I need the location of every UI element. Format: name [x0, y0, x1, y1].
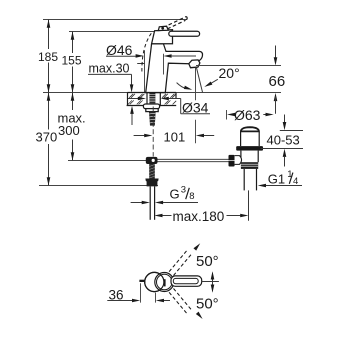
G3/8 connector nut — [145, 179, 158, 187]
washer under deck — [143, 104, 159, 109]
Ø46 right arrow — [163, 54, 171, 58]
svg-text:Ø34: Ø34 — [182, 100, 209, 116]
pop-up rod horizontal — [157, 158, 228, 160]
svg-text:G1: G1 — [268, 171, 285, 186]
flange ring — [236, 146, 263, 151]
dimension 155 — [72, 32, 74, 54]
dimension Ø34 (hole) — [128, 98, 138, 100]
small tick near extension — [137, 63, 144, 65]
G3/8 dimension arrows — [131, 202, 143, 204]
Ø46 extension line right — [163, 54, 165, 63]
body circle — [145, 272, 164, 291]
svg-text:185: 185 — [38, 50, 58, 64]
aerator — [189, 60, 200, 68]
dimension Ø63 — [226, 110, 228, 120]
dimension 370 — [48, 93, 50, 130]
dashed swing arc left of head — [142, 33, 151, 71]
dimension 185 — [48, 20, 50, 50]
dimension max.300 — [72, 93, 74, 111]
counter deck with hatching — [127, 93, 177, 106]
body and spout — [146, 44, 203, 93]
svg-text:50°: 50° — [196, 296, 219, 313]
370 bottom extension line — [39, 185, 158, 187]
max.300 bottom extension line — [68, 160, 146, 162]
svg-text:20°: 20° — [219, 65, 240, 81]
dimension 36 — [140, 283, 142, 302]
extension line top of lever (185 ref) — [43, 19, 187, 21]
counter level extension line — [43, 92, 281, 94]
boss — [235, 156, 242, 165]
body below flange — [241, 151, 258, 163]
tee fitting for pop-up rod — [146, 157, 158, 164]
svg-text:3: 3 — [181, 184, 186, 195]
extension line top of body (155 ref) — [69, 31, 155, 33]
svg-text:370: 370 — [36, 130, 58, 145]
pin left — [139, 280, 147, 282]
center mark — [164, 279, 166, 286]
20 degree stream line — [196, 67, 202, 92]
dashed lever up 50deg — [169, 250, 192, 276]
hub circle — [155, 273, 174, 292]
svg-text:G: G — [170, 186, 180, 201]
dimension 40-53 — [284, 115, 286, 123]
svg-text:300: 300 — [58, 123, 80, 138]
lever cap — [158, 26, 168, 30]
svg-text:40-53: 40-53 — [267, 132, 300, 147]
redraw body circle edge — [145, 272, 164, 291]
mounting nut — [146, 109, 158, 112]
centerline right — [202, 281, 219, 283]
svg-text:max.30: max.30 — [89, 62, 130, 76]
tailpipe centerline — [248, 190, 250, 220]
svg-text:66: 66 — [269, 73, 286, 90]
svg-text:Ø46: Ø46 — [106, 42, 133, 58]
swing double arrow — [212, 273, 214, 291]
threaded rod below — [149, 112, 156, 126]
rod knob — [229, 155, 235, 167]
vertical reference line from aerator — [195, 68, 197, 101]
cartridge head — [152, 30, 173, 44]
plug dome — [241, 127, 259, 131]
neck — [240, 132, 242, 147]
dimension 101 — [134, 135, 145, 137]
svg-text:max.180: max.180 — [173, 209, 225, 224]
20 degree arc — [177, 83, 186, 89]
dimension 66 — [196, 65, 281, 67]
braided hose — [149, 164, 155, 179]
svg-text:50°: 50° — [196, 253, 219, 270]
lever top view — [171, 276, 202, 286]
lever rod horizontal — [169, 31, 200, 36]
nipple tube — [149, 186, 151, 219]
Ø46 right extension line over spout — [163, 54, 165, 75]
svg-text:8: 8 — [189, 191, 194, 202]
dimension max.180 — [154, 214, 162, 218]
faucet centerline dashed — [152, 107, 154, 157]
Ø46 extension line left — [144, 51, 146, 93]
threaded shank in deck — [149, 93, 155, 104]
dashed lever down 50deg — [169, 289, 192, 315]
svg-text:155: 155 — [62, 54, 82, 68]
svg-text:Ø63: Ø63 — [234, 107, 261, 123]
svg-text:101: 101 — [164, 130, 186, 145]
tailpipe — [243, 169, 245, 191]
thread band — [241, 162, 258, 169]
dashed raised lever — [167, 17, 187, 29]
